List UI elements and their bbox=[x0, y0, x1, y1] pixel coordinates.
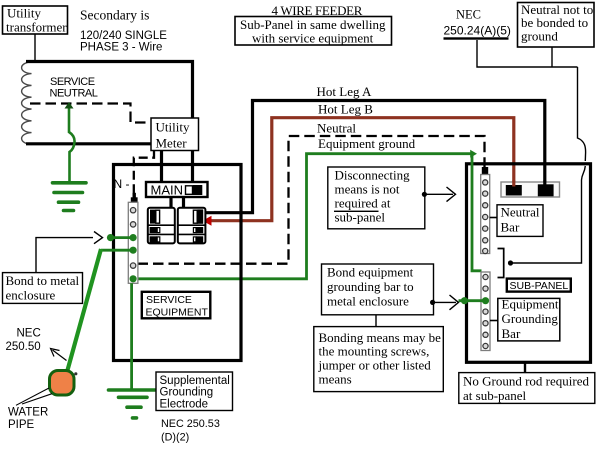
svg-text:Bar: Bar bbox=[501, 219, 520, 234]
sub-panel neutral bar screws bbox=[483, 180, 488, 254]
sub-panel lug bar bbox=[501, 182, 560, 197]
svg-text:ground: ground bbox=[521, 29, 558, 44]
ground symbol at transformer bbox=[53, 183, 87, 211]
feeder Neutral dashed wire bbox=[138, 136, 485, 264]
svg-text:Hot Leg B: Hot Leg B bbox=[318, 102, 373, 117]
utility transformer label box bbox=[3, 6, 68, 35]
sub-panel equipment grounding bar bbox=[481, 272, 490, 351]
pointer wire from bond box bbox=[36, 238, 93, 273]
svg-text:Neutral: Neutral bbox=[501, 205, 540, 220]
Hot Leg A termination at lug bbox=[543, 181, 546, 187]
supplemental ground symbol bbox=[109, 390, 156, 418]
meter to MAIN wires bbox=[160, 151, 163, 183]
svg-text:SUB-PANEL: SUB-PANEL bbox=[510, 280, 569, 292]
bond wire through sub-panel wall bbox=[459, 299, 486, 302]
svg-text:NEC 250.53: NEC 250.53 bbox=[161, 418, 220, 430]
svg-text:Equipment ground: Equipment ground bbox=[318, 136, 416, 151]
connector bond box to bonding means box bbox=[375, 315, 377, 327]
disconnecting means arrow bbox=[422, 187, 456, 202]
svg-text:250.50: 250.50 bbox=[6, 341, 41, 353]
bonding means note box bbox=[314, 327, 444, 392]
SERVICE EQUIPMENT label box bbox=[142, 292, 211, 319]
sub-panel neutral bar bbox=[481, 175, 490, 254]
svg-text:metal enclosure: metal enclosure bbox=[327, 294, 409, 309]
svg-text:Neutral: Neutral bbox=[317, 120, 356, 135]
neutral bar screws bbox=[130, 208, 135, 269]
svg-text:the mounting screws,: the mounting screws, bbox=[319, 344, 430, 359]
svg-text:SERVICE: SERVICE bbox=[146, 294, 192, 306]
wire from neutral-not-bonded box bbox=[551, 47, 553, 67]
wire from NEC note bbox=[477, 40, 578, 67]
svg-text:250.24(A)(5): 250.24(A)(5) bbox=[444, 24, 511, 38]
NEC 250.24(A)(5) note bbox=[444, 8, 511, 40]
green dots on sub-panel bond bbox=[461, 297, 489, 304]
svg-text:Utility: Utility bbox=[7, 6, 41, 21]
disconnecting means note box bbox=[328, 167, 425, 229]
Hot Leg B termination at lug bbox=[512, 181, 515, 187]
neutral not to be bonded box bbox=[518, 2, 595, 47]
svg-text:NEUTRAL: NEUTRAL bbox=[50, 88, 98, 100]
junction dot at bracket bbox=[508, 260, 513, 265]
utility meter box bbox=[151, 118, 199, 151]
main panel neutral bar bbox=[128, 202, 138, 283]
pointer arrowhead bbox=[94, 232, 103, 244]
MAIN to breakers stubs bbox=[169, 197, 172, 208]
bond jumper wire from enclosure to neutral bar bbox=[111, 236, 134, 239]
svg-text:MAIN: MAIN bbox=[151, 182, 184, 197]
grounding electrode conductor at transformer (green, hops over wire) bbox=[65, 102, 75, 182]
NEC 250.53 note bbox=[161, 418, 220, 443]
svg-text:PIPE: PIPE bbox=[8, 419, 35, 431]
equipment ground arrowhead bbox=[470, 150, 477, 158]
sub-panel same dwelling note box bbox=[235, 17, 392, 46]
svg-text:Bond to metal: Bond to metal bbox=[6, 273, 80, 288]
main panel enclosure bbox=[114, 165, 242, 361]
water pipe dot bbox=[74, 372, 77, 375]
svg-text:120/240 SINGLE: 120/240 SINGLE bbox=[80, 30, 167, 42]
stub from sub-panel to no-ground-rod box bbox=[524, 362, 526, 373]
svg-text:Secondary is: Secondary is bbox=[80, 8, 149, 23]
hot wire top: transformer to meter bbox=[26, 62, 193, 119]
svg-text:Grounding: Grounding bbox=[502, 311, 559, 326]
svg-text:enclosure: enclosure bbox=[6, 288, 56, 303]
Hot Leg B arrowhead at breaker bbox=[203, 216, 212, 226]
svg-text:required at: required at bbox=[335, 196, 391, 211]
water pipe bbox=[50, 371, 75, 396]
svg-text:Electrode: Electrode bbox=[160, 398, 209, 410]
svg-text:Bar: Bar bbox=[502, 326, 521, 341]
svg-text:(D)(2): (D)(2) bbox=[161, 431, 189, 443]
svg-text:Equipment: Equipment bbox=[502, 297, 559, 312]
bonding jumper to water pipe (green diagonal) bbox=[67, 249, 101, 372]
sub-panel neutral bar cap bbox=[482, 167, 488, 175]
breaker group right bbox=[178, 208, 206, 244]
equipment grounding bar screws bbox=[483, 274, 488, 348]
svg-text:means is not: means is not bbox=[335, 182, 400, 197]
SERVICE NEUTRAL label bbox=[50, 76, 98, 100]
WATER PIPE label bbox=[8, 407, 48, 432]
svg-text:Supplemental: Supplemental bbox=[160, 375, 230, 387]
svg-text:Meter: Meter bbox=[156, 136, 188, 151]
svg-text:with service equipment: with service equipment bbox=[252, 31, 374, 46]
svg-text:means: means bbox=[319, 372, 352, 387]
svg-text:jumper or other listed: jumper or other listed bbox=[318, 357, 432, 372]
supplemental grounding electrode box bbox=[156, 372, 233, 411]
bond to metal enclosure box bbox=[3, 273, 83, 304]
svg-text:N -: N - bbox=[114, 177, 130, 191]
feeder Hot Leg B wire bbox=[206, 118, 514, 221]
wire hop into sub-panel bbox=[511, 67, 586, 263]
wire from transformer label to secondary bbox=[34, 34, 36, 61]
svg-text:No Ground rod required: No Ground rod required bbox=[463, 374, 589, 389]
equipment ground feeder inside sub-panel bbox=[472, 155, 482, 271]
bracket between bars bbox=[498, 249, 504, 278]
svg-text:PHASE 3 - Wire: PHASE 3 - Wire bbox=[80, 42, 162, 54]
svg-text:Bond equipment: Bond equipment bbox=[327, 265, 414, 280]
svg-text:NEC: NEC bbox=[456, 8, 481, 22]
svg-text:EQUIPMENT: EQUIPMENT bbox=[146, 306, 209, 318]
transformer secondary coil bbox=[22, 62, 32, 145]
svg-text:SERVICE: SERVICE bbox=[50, 76, 95, 88]
feeder Equipment ground wire (green) bbox=[133, 154, 472, 279]
120/240 label bbox=[80, 30, 167, 54]
supplemental grounding wire (green vertical) bbox=[130, 283, 133, 389]
NEC 250.50 note bbox=[6, 327, 41, 353]
svg-text:transformer: transformer bbox=[6, 20, 67, 35]
no ground rod note box bbox=[459, 373, 595, 404]
green connection dots on neutral bar bbox=[107, 234, 137, 282]
NEC 250.50 arrow bbox=[51, 349, 67, 361]
svg-text:Grounding: Grounding bbox=[160, 387, 214, 399]
water pipe bond wire to neutral bar bbox=[101, 249, 133, 252]
bond equipment arrow bbox=[430, 295, 459, 310]
water pipe pointer lines bbox=[16, 388, 49, 405]
svg-text:WATER: WATER bbox=[8, 407, 48, 419]
breaker group left bbox=[148, 208, 175, 244]
neutral bar label box bbox=[490, 205, 543, 237]
svg-text:sub-panel: sub-panel bbox=[335, 210, 386, 225]
equipment grounding bar label box bbox=[490, 297, 560, 341]
svg-text:NEC: NEC bbox=[17, 327, 41, 339]
feeder Hot Leg A wire bbox=[204, 101, 545, 213]
svg-text:Hot Leg A: Hot Leg A bbox=[317, 84, 372, 99]
neutral dashed wire meter to neutral bar bbox=[134, 151, 154, 195]
main panel neutral bar cap bbox=[131, 193, 138, 203]
svg-text:at sub-panel: at sub-panel bbox=[463, 388, 527, 403]
svg-text:Disconnecting: Disconnecting bbox=[335, 168, 411, 183]
svg-text:Utility: Utility bbox=[156, 120, 190, 135]
MAIN breaker bbox=[146, 182, 208, 197]
hot wire bottom: transformer to meter bbox=[26, 142, 151, 145]
service neutral dashed wire to meter bbox=[30, 104, 151, 123]
svg-text:grounding bar to: grounding bar to bbox=[327, 279, 414, 294]
bond equipment grounding bar note box bbox=[322, 264, 434, 315]
sub-panel enclosure bbox=[467, 164, 591, 362]
SUB-PANEL label box bbox=[507, 279, 571, 292]
